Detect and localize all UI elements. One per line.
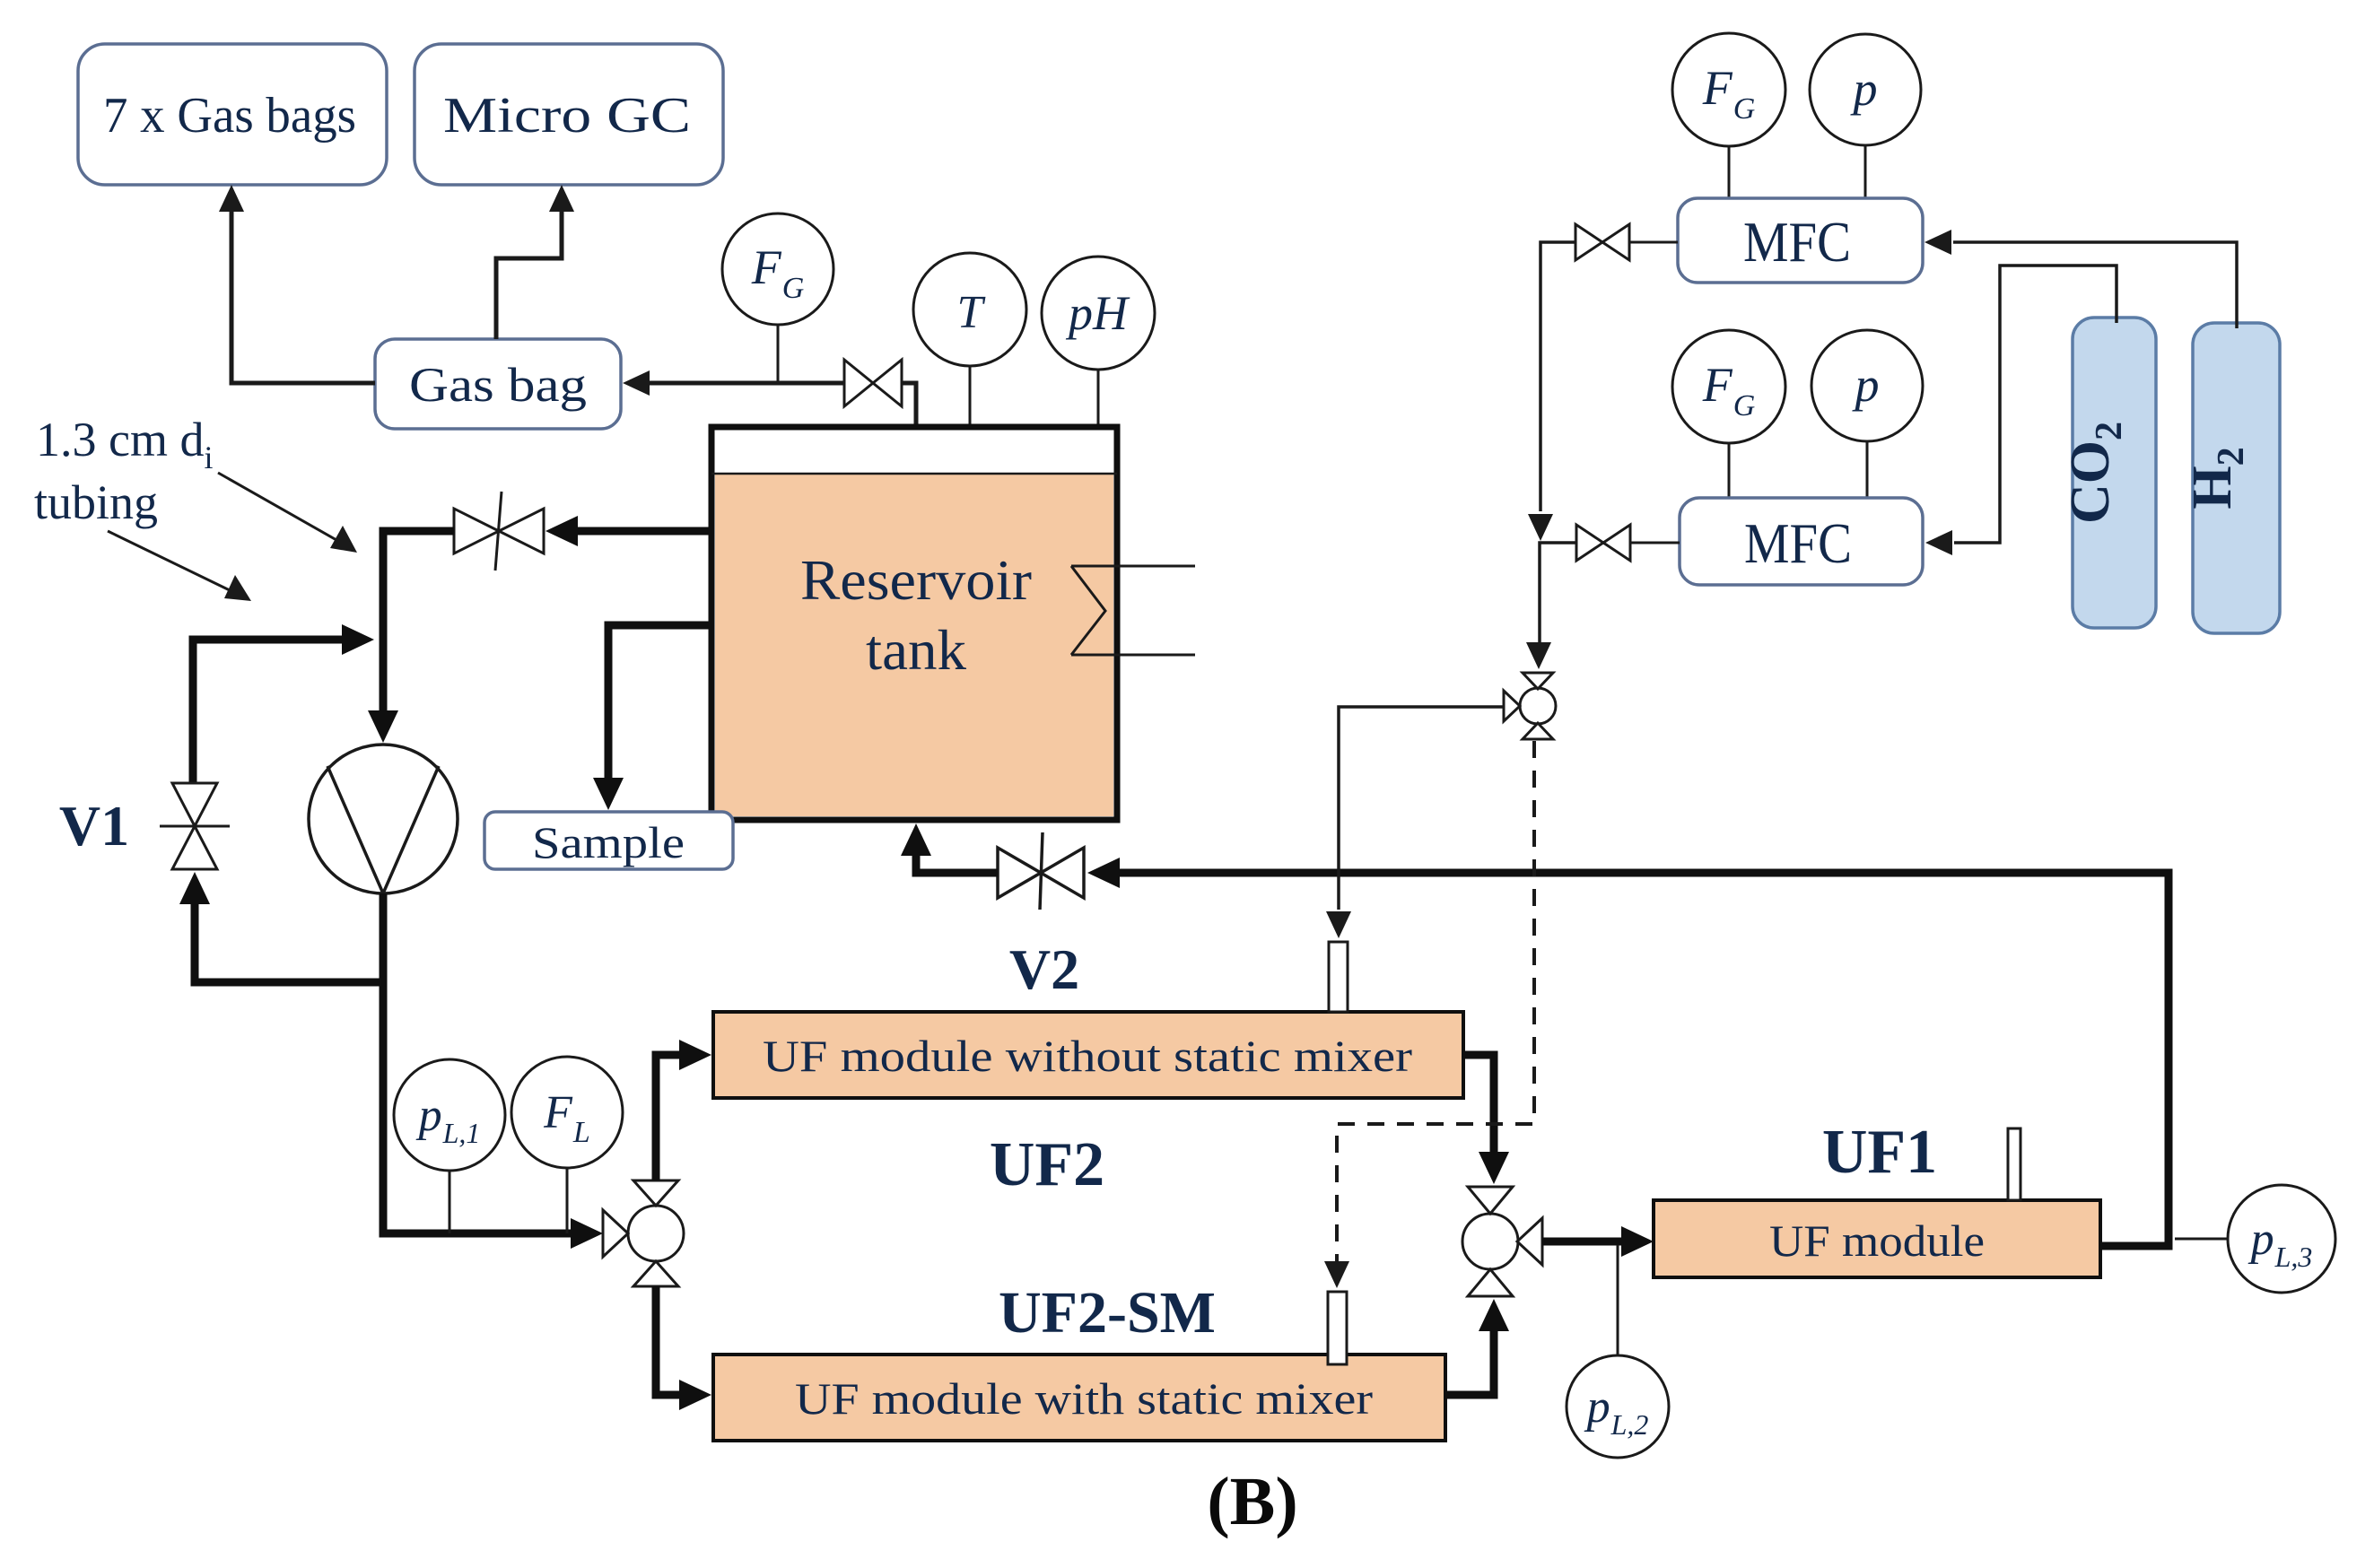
svg-text:Sample: Sample [532, 817, 685, 867]
svg-text:UF2: UF2 [990, 1130, 1104, 1199]
gauge pH [1042, 257, 1155, 429]
svg-text:MFC: MFC [1744, 511, 1852, 575]
svg-text:V1: V1 [59, 794, 129, 858]
valve mfc2 [1576, 525, 1680, 561]
gauge p mfc1 [1810, 34, 1921, 198]
box UF module with static mixer [713, 1355, 1445, 1441]
pipe pump outlet down to UF2 feed valve with arrow [383, 893, 603, 1249]
pipe loop into pump line with arrow [193, 624, 374, 786]
gauge FG mfc2 [1672, 330, 1785, 498]
pipe tank gas out to slash valve with arrow [545, 516, 711, 546]
gauge FG gas line [722, 213, 834, 381]
svg-text:UF module: UF module [1769, 1215, 1985, 1266]
svg-text:V2: V2 [1009, 937, 1079, 1001]
svg-text:UF module without static mix: UF module without static mixer [763, 1031, 1412, 1081]
pipe UF2-SM out to right valve with arrow [1445, 1299, 1509, 1395]
pipe right valve to UF1 with arrow [1542, 1226, 1654, 1257]
svg-text:1.3 cm di: 1.3 cm di [36, 413, 214, 475]
pipe valve to pump with arrow [368, 531, 454, 743]
static mixer rect on UF2-SM [1328, 1292, 1347, 1364]
label 1.3 cm di tubing [34, 413, 214, 529]
cylinder H2 [2182, 323, 2280, 633]
valve V2 slashed [998, 832, 1084, 910]
three-way valve gas inlet [1504, 673, 1556, 739]
svg-text:Gas bag: Gas bag [409, 358, 587, 412]
svg-text:p: p [1852, 358, 1880, 412]
svg-text:UF module with static mixer: UF module with static mixer [795, 1373, 1373, 1424]
pipe pump outlet loop up to V1 with arrow [179, 872, 383, 982]
svg-text:Reservoir: Reservoir [800, 548, 1032, 612]
pipe left valve down to UF2-SM with arrow [656, 1286, 711, 1410]
permeate port rect on UF1 [2008, 1128, 2021, 1200]
svg-text:Micro GC: Micro GC [443, 88, 691, 144]
box 7 x Gas bags [78, 44, 387, 185]
box UF module UF1 [1654, 1200, 2100, 1277]
gauge p mfc2 [1811, 330, 1923, 498]
svg-text:T: T [957, 287, 986, 338]
valve mfc1 [1575, 224, 1678, 260]
cylinder CO2 [2060, 318, 2156, 628]
wire gas line to Gas bag with arrow [623, 370, 844, 396]
arrow return into V2 [1087, 858, 1120, 888]
pipe tank to Sample with arrow [593, 625, 711, 810]
box UF module without static mixer [713, 1012, 1463, 1098]
box Micro GC [415, 44, 723, 185]
wire junction down to three-way valve with arrow [1526, 543, 1576, 669]
svg-text:MFC: MFC [1743, 210, 1851, 274]
pipe UF2 out to right valve with arrow [1463, 1055, 1509, 1184]
gauge pL2 [1567, 1245, 1669, 1458]
wire valve to tank top [902, 383, 916, 429]
annotation arrow 1 to vertical pipe [218, 473, 357, 553]
svg-text:tank: tank [866, 618, 966, 682]
valve gas line [844, 360, 902, 406]
gauge FL [511, 1057, 623, 1233]
three-way valve left [603, 1180, 684, 1286]
box MFC 2 [1680, 498, 1923, 585]
box Sample [484, 812, 733, 869]
svg-text:pH: pH [1065, 286, 1130, 340]
svg-text:UF1: UF1 [1822, 1118, 1937, 1187]
svg-text:p: p [1850, 62, 1878, 116]
svg-text:UF2-SM: UF2-SM [999, 1280, 1216, 1346]
wire H2 to MFC1 with arrow [1925, 230, 2237, 328]
pipe UF1 outlet return line up [1116, 873, 2169, 1246]
flow meter rect on UF2 [1329, 942, 1348, 1012]
dashed line valve to static mixer with arrow [1324, 741, 1534, 1288]
wire three-way valve to sparger with arrow [1326, 707, 1504, 938]
box MFC 1 [1678, 198, 1923, 283]
gauge pL3 [2175, 1185, 2335, 1293]
box Gas bag [375, 339, 621, 429]
wire Gas bag to Micro GC with arrow [496, 185, 574, 339]
reservoir tank [711, 427, 1117, 820]
heat exchanger coil [1071, 566, 1195, 655]
valve slashed near tank [454, 492, 544, 571]
gauge T [913, 253, 1026, 429]
annotation arrow 2 to loop pipe [108, 531, 251, 601]
gauge pL1 [394, 1059, 505, 1233]
wire Gas bag to 7x Gas bags with arrow [219, 185, 375, 383]
svg-text:7 x Gas bags: 7 x Gas bags [103, 88, 356, 144]
gauge FG mfc1 [1672, 33, 1785, 198]
three-way valve right [1462, 1187, 1542, 1296]
svg-text:(B): (B) [1207, 1464, 1297, 1539]
pipe left valve up to UF2 with arrow [656, 1040, 711, 1180]
svg-text:tubing: tubing [34, 475, 158, 529]
wire CO2 to MFC2 with arrow [1925, 266, 2117, 555]
pipe V2 to tank bottom with arrow [901, 823, 998, 873]
valve V1 [160, 783, 230, 869]
pump [309, 745, 458, 893]
wire mfc1 valve to junction and down with arrow [1528, 242, 1575, 541]
